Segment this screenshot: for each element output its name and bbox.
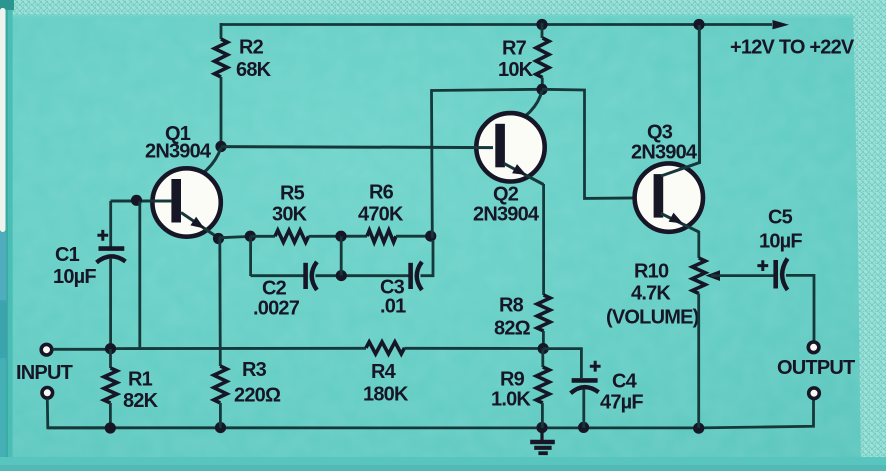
left border white sliver [0,8,6,232]
node R1 top junction [105,343,116,354]
capacitor C4 plus sign [590,361,601,372]
wire right tie leg up [432,89,543,238]
wire center tie leg [340,236,343,275]
svg-text:R8: R8 [499,295,524,317]
svg-text:R9: R9 [500,369,525,391]
svg-text:10µF: 10µF [759,231,802,253]
resistor R8 [537,295,550,331]
wire Q3 collector [661,25,700,176]
capacitor C1 top plate [99,246,125,251]
ground [540,428,543,441]
capacitor C3 curved plate [417,262,422,290]
wire C3 right lead [421,240,434,276]
node Q1 base junction [131,195,142,206]
wire Q2 base line from Q1 collector [221,147,493,148]
capacitor C5 curved plate [782,259,787,291]
wire R10 bottom lead [697,294,700,429]
junction rail R9 ground [536,422,547,433]
left border lower blue patches [0,232,6,302]
svg-text:C4: C4 [612,371,638,393]
resistor R9 [536,367,549,403]
wire R5 to R6 [309,235,368,238]
svg-text:C5: C5 [768,207,793,229]
wire R5 node down leg [249,236,252,276]
wire R9 top lead [541,349,544,367]
terminal OUTPUT ground [809,388,820,399]
svg-text:Q3: Q3 [647,122,673,144]
wire R9 bottom lead [541,403,544,428]
wire R6 right lead [396,235,432,238]
capacitor C5 plus sign [757,260,768,271]
wire R2 top lead [220,23,223,39]
svg-text:OUTPUT: OUTPUT [777,357,855,379]
svg-text:10µF: 10µF [53,266,96,288]
svg-text:C2: C2 [262,278,287,300]
wire Q1 base to input line [138,202,141,349]
supply arrowhead +12V [773,20,790,29]
wire input ground lead [47,399,110,428]
capacitor C1 curved plate [97,256,126,262]
terminal INPUT hot [41,344,52,355]
resistor R4 [366,342,405,354]
svg-text:82Ω: 82Ω [494,318,531,340]
wire Q2 emitter [504,164,544,185]
bottom border band [0,457,886,471]
arrow Q3 emitter [669,213,683,224]
svg-text:R10: R10 [634,261,669,283]
transistor Q3 [635,163,703,231]
svg-text:68K: 68K [236,59,272,81]
svg-text:R5: R5 [280,183,305,205]
junction rail C4 [578,422,589,433]
node Q1 collector junction [215,141,226,152]
wire C5 right lead [786,275,814,341]
wire input line to R4 [111,347,367,350]
wire C2 left lead [251,274,304,277]
arrow R10 wiper [706,270,721,281]
svg-text:470K: 470K [358,204,404,226]
top border hatched band [0,0,886,16]
resistor R2 [215,39,228,77]
svg-text:10K: 10K [498,59,534,81]
wire R1 bottom lead [109,403,112,428]
terminal OUTPUT hot [808,342,819,353]
junction top rail / Q3 collector [693,19,704,30]
wire R2 bottom lead to Q1 collector node [220,77,223,147]
svg-text:2N3904: 2N3904 [145,141,212,163]
capacitor C1 plus sign [97,230,108,241]
wire Q1 collector [181,148,221,188]
right border hatched band [853,0,886,471]
svg-text:82K: 82K [123,390,159,412]
wire collector node to Q3 base [542,89,652,198]
arrow Q2 emitter [512,164,526,175]
capacitor C4 curved plate [571,387,599,393]
svg-text:180K: 180K [363,384,409,406]
transistor Q1 [152,168,220,236]
resistor R1 [104,368,117,403]
terminal INPUT ground [42,388,53,399]
svg-text:1.0K: 1.0K [491,389,531,411]
wire Q2 collector [504,91,542,129]
wire bottom rail [48,399,814,428]
svg-text:4.7K: 4.7K [631,283,671,305]
wire R8 top lead [542,184,545,295]
svg-text:R4: R4 [371,361,397,383]
svg-text:R2: R2 [239,37,264,59]
wire C2 to C3 [316,274,409,277]
wire R7 bottom lead [541,78,544,91]
capacitor C4 top plate [572,378,598,383]
capacitor C3 straight plate [408,263,413,289]
resistor R3 [214,366,227,403]
svg-text:Q2: Q2 [493,184,519,206]
wire R10 top lead [697,231,700,258]
capacitor C5 straight plate [773,260,778,289]
left border dark strip [0,0,12,471]
resistor R10 [692,258,705,294]
svg-text:R3: R3 [242,359,267,381]
svg-text:+12V TO +22V: +12V TO +22V [730,37,855,59]
node Q1 emitter junction [213,233,224,244]
wire R1 top lead [109,349,112,368]
wire C4 bottom lead [582,390,585,429]
wire top supply rail [221,23,772,26]
svg-text:2N3904: 2N3904 [473,204,540,226]
svg-text:.0027: .0027 [253,298,300,320]
node R5 R6 junction [335,231,346,242]
wire input terminal to R1 node [53,348,111,351]
wire C1 bottom lead [109,258,112,349]
node C2 C3 junction [336,270,347,281]
svg-text:C1: C1 [55,244,80,266]
svg-text:R6: R6 [369,182,394,204]
junction rail R10 [693,423,704,434]
svg-text:R7: R7 [502,38,527,60]
node R6 right junction [425,231,436,242]
node R5 left junction [245,231,256,242]
resistor R6 [367,230,396,242]
junction rail R3 [215,422,226,433]
wire R5 left lead [250,235,275,238]
transistor Q2 [476,113,544,181]
wire R7 top lead [541,23,544,38]
node Q2 collector junction [536,84,547,95]
wire Q1 emitter to R5 [219,236,251,237]
wire Q1 emitter [181,213,219,239]
wire R10 wiper to C5 [711,274,774,277]
resistor R5 [275,230,309,242]
wire R3 top lead [218,238,221,366]
capacitor C2 straight plate [303,263,308,289]
junction top rail / R7 [536,19,547,30]
svg-text:INPUT: INPUT [16,362,73,384]
svg-text:30K: 30K [272,204,308,226]
svg-text:(VOLUME): (VOLUME) [606,307,699,329]
wire R4 to R8 node [405,347,544,350]
arrow Q1 emitter [190,217,204,229]
wire C1 top lead [109,201,112,247]
svg-text:47µF: 47µF [600,392,643,414]
wire R8 bottom lead [542,331,545,349]
junction rail R1 [105,422,116,433]
wire R8 node to C4 [543,349,581,378]
resistor R7 [536,38,549,78]
node R8 R9 junction [538,343,549,354]
svg-text:R1: R1 [128,369,153,391]
wire Q1 base lead [111,200,173,203]
wire Q3 emitter [661,214,699,233]
svg-text:220Ω: 220Ω [234,385,281,407]
wire R3 bottom lead [219,403,222,428]
svg-text:2N3904: 2N3904 [631,142,698,164]
capacitor C2 curved plate [312,262,317,290]
svg-text:.01: .01 [380,296,406,318]
